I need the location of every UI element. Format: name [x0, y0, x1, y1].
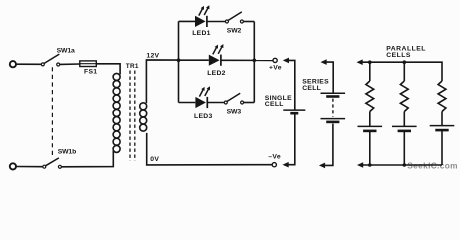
wire secondary bottom 0V lead [147, 133, 272, 165]
svg-text:TR1: TR1 [126, 63, 139, 70]
node top rail junction 2 [403, 60, 407, 64]
gang link dashed [51, 67, 53, 157]
svg-text:SW1a: SW1a [57, 47, 75, 54]
wire [16, 166, 43, 168]
wire [16, 63, 41, 65]
wire [403, 112, 405, 127]
svg-text:FS1: FS1 [84, 69, 97, 76]
switch SW1b [43, 158, 62, 168]
terminal -Ve [272, 163, 276, 167]
wire single cell top arrow [283, 58, 295, 110]
LED1 [195, 5, 209, 27]
battery parallel cell 3 [430, 126, 455, 131]
resistor branch 2 [400, 81, 408, 111]
wire parallel bottom rail with arrow [357, 162, 442, 168]
svg-text:LED3: LED3 [194, 113, 213, 120]
node right rail junction [253, 59, 257, 63]
transformer TR1 secondary winding [140, 103, 147, 131]
wire top branch [179, 20, 196, 22]
wire [441, 112, 443, 126]
fuse FS1 [80, 61, 97, 67]
terminal +Ve [273, 58, 277, 62]
node bottom rail junction 2 [403, 163, 407, 167]
node bottom rail junction 1 [368, 163, 372, 167]
wire parallel top rail with arrow [357, 59, 443, 81]
wire middle branch [179, 59, 209, 61]
transformer core [130, 71, 135, 161]
svg-text:–Ve: –Ve [268, 154, 281, 161]
svg-text:SW1b: SW1b [58, 148, 76, 155]
wire secondary top 12V lead [146, 60, 178, 103]
switch SW2 [225, 12, 243, 23]
transformer TR1 primary winding [113, 73, 120, 152]
wire [369, 112, 371, 127]
wire [207, 21, 226, 23]
wire bottom branch [179, 102, 196, 104]
battery parallel cell 2 [392, 126, 417, 130]
svg-text:CELLS: CELLS [386, 52, 411, 59]
wire series bottom arrow [319, 124, 333, 169]
wire [369, 131, 371, 165]
wire branch 2 [403, 62, 405, 81]
svg-text:CELL: CELL [302, 85, 321, 92]
wire [403, 131, 405, 165]
svg-text:SW2: SW2 [227, 28, 242, 35]
LED2 [209, 44, 224, 66]
wire [96, 64, 120, 75]
wire [62, 151, 114, 167]
node 12V rail junction [177, 58, 181, 62]
LED3 [195, 86, 210, 108]
svg-text:0V: 0V [150, 156, 159, 163]
battery series cell 1 [321, 93, 346, 96]
resistor branch 3 [438, 81, 446, 111]
switch SW3 [224, 93, 243, 104]
svg-text:CELL: CELL [265, 101, 284, 108]
wire to +Ve [221, 59, 273, 61]
svg-text:SW3: SW3 [227, 109, 242, 116]
wire [207, 102, 224, 104]
svg-text:LED1: LED1 [192, 30, 211, 37]
wire branch 1 [369, 62, 371, 81]
battery series cell 2 [321, 119, 346, 122]
wire right rail [253, 22, 255, 103]
resistor branch 1 [366, 81, 374, 111]
wire [60, 63, 80, 65]
wire single cell bottom arrow [283, 113, 295, 167]
svg-text:LED2: LED2 [207, 70, 226, 77]
battery parallel cell 1 [358, 126, 383, 130]
battery single cell [283, 110, 305, 113]
node top rail junction 1 [368, 60, 372, 64]
terminal input bottom [10, 163, 16, 169]
terminal input top [10, 61, 16, 67]
svg-text:12V: 12V [146, 53, 159, 60]
wire [243, 21, 254, 23]
wire [441, 130, 443, 165]
wire left rail [178, 21, 180, 102]
switch SW1a [41, 54, 59, 66]
wire series top arrow [321, 59, 334, 93]
wire dashed more cells [332, 99, 334, 117]
svg-text:+Ve: +Ve [269, 64, 282, 71]
wire [244, 102, 255, 104]
